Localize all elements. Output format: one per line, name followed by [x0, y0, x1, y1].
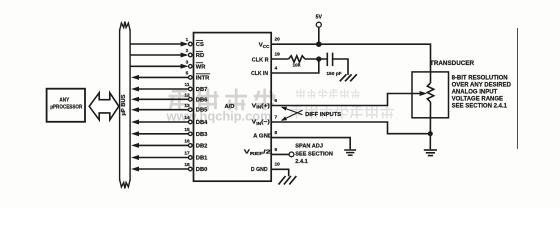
- svg-text:VCC: VCC: [259, 43, 270, 49]
- svg-text:5V: 5V: [316, 14, 323, 20]
- svg-text:11: 11: [184, 82, 189, 88]
- svg-text:17: 17: [184, 151, 190, 157]
- svg-text:A GND: A GND: [253, 134, 272, 140]
- svg-text:WR: WR: [196, 64, 206, 70]
- svg-text:ANY: ANY: [59, 98, 69, 104]
- svg-text:16: 16: [184, 139, 190, 145]
- svg-text:CLK R: CLK R: [252, 58, 270, 64]
- svg-text:µP BUS: µP BUS: [121, 94, 127, 116]
- svg-text:INTR: INTR: [196, 75, 210, 81]
- svg-text:CS: CS: [196, 42, 204, 48]
- svg-text:10k: 10k: [292, 63, 300, 69]
- svg-text:A/D: A/D: [225, 104, 235, 110]
- svg-text:ANALOG INPUT: ANALOG INPUT: [452, 90, 498, 96]
- svg-text:VIN(+): VIN(+): [252, 103, 270, 109]
- svg-text:DB0: DB0: [196, 167, 208, 173]
- svg-text:DB2: DB2: [196, 143, 208, 149]
- svg-text:13: 13: [184, 103, 190, 109]
- svg-text:7: 7: [275, 114, 278, 120]
- svg-text:VREF/2: VREF/2: [244, 150, 271, 156]
- svg-text:TRANSDUCER: TRANSDUCER: [430, 61, 475, 67]
- svg-text:3: 3: [186, 60, 189, 66]
- svg-text:µPROCESSOR: µPROCESSOR: [50, 105, 83, 111]
- svg-text:OVER ANY DESIRED: OVER ANY DESIRED: [452, 82, 512, 88]
- svg-text:RD: RD: [196, 53, 204, 59]
- svg-text:14: 14: [184, 115, 190, 121]
- svg-text:DB7: DB7: [196, 87, 208, 93]
- svg-text:6: 6: [275, 98, 278, 104]
- svg-text:DB1: DB1: [196, 156, 208, 162]
- svg-text:5: 5: [186, 71, 189, 77]
- svg-text:SEE SECTION 2.4.1: SEE SECTION 2.4.1: [452, 104, 508, 110]
- svg-text:DB5: DB5: [196, 108, 208, 114]
- svg-text:2: 2: [186, 48, 189, 54]
- svg-text:10: 10: [275, 162, 281, 168]
- svg-text:12: 12: [184, 93, 190, 99]
- svg-text:8: 8: [275, 130, 278, 136]
- svg-text:CLK IN: CLK IN: [251, 71, 268, 77]
- svg-text:18: 18: [184, 162, 190, 168]
- svg-text:2.4.1: 2.4.1: [295, 159, 307, 165]
- svg-text:20: 20: [275, 37, 281, 43]
- svg-text:1: 1: [186, 37, 189, 43]
- svg-text:DB3: DB3: [196, 132, 208, 138]
- svg-text:DB6: DB6: [196, 97, 208, 103]
- svg-text:DB4: DB4: [196, 120, 208, 126]
- svg-text:150 pF: 150 pF: [326, 71, 341, 77]
- svg-text:19: 19: [275, 51, 281, 57]
- svg-text:VIN(−): VIN(−): [252, 120, 270, 126]
- svg-text:8-BIT RESOLUTION: 8-BIT RESOLUTION: [452, 75, 508, 81]
- svg-text:4: 4: [275, 65, 278, 71]
- svg-text:VOLTAGE RANGE: VOLTAGE RANGE: [452, 97, 503, 103]
- svg-text:DIFF INPUTS: DIFF INPUTS: [305, 112, 341, 118]
- svg-text:15: 15: [184, 127, 190, 133]
- svg-text:SPAN ADJ: SPAN ADJ: [295, 144, 323, 150]
- svg-text:9: 9: [275, 147, 278, 153]
- svg-text:D GND: D GND: [251, 167, 268, 173]
- svg-text:SEE SECTION: SEE SECTION: [295, 151, 333, 157]
